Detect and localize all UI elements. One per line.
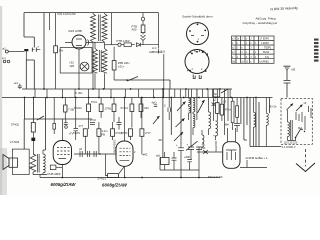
svg-text:17 E5PG: 17 E5PG bbox=[260, 38, 270, 41]
junction X1 bbox=[212, 98, 216, 122]
resistor R4 bbox=[11, 120, 35, 138]
tube V2 envelope bbox=[53, 141, 71, 165]
scan smudge bottom-left corner bbox=[0, 148, 7, 195]
svg-text:A00: A00 bbox=[132, 28, 137, 32]
resistor R17 bbox=[220, 98, 232, 122]
wire transformer top bbox=[39, 175, 41, 178]
capacitor C28 bbox=[94, 151, 96, 157]
output transformer primary L2 bbox=[43, 150, 45, 175]
resistor R3 bbox=[112, 47, 129, 80]
bus tie verticals bbox=[35, 89, 230, 98]
junction dots bus A bbox=[43, 88, 221, 90]
wire vertical x45.5 bbox=[43, 98, 46, 151]
capacitor C14 bbox=[88, 151, 90, 157]
ground symbol bbox=[284, 66, 291, 80]
wire vertical x196.9 bbox=[196, 89, 198, 120]
table cell text bbox=[232, 38, 272, 64]
tube V3 cathode lead bbox=[119, 166, 125, 177]
wire vertical x49.5 bbox=[49, 13, 51, 30]
wire vertical x250 bbox=[249, 98, 251, 147]
svg-text:a1: a1 bbox=[3, 47, 7, 51]
cathode resistor R15 bbox=[98, 154, 119, 181]
IF transformer T1 primary coil bbox=[91, 13, 96, 89]
power transformer core bbox=[291, 120, 293, 140]
resistor R8 bbox=[121, 98, 134, 128]
capacitor C23 bbox=[225, 123, 240, 133]
coil L4a bbox=[193, 98, 195, 115]
wire rail right drop bbox=[158, 13, 160, 54]
coil L4b bbox=[193, 114, 195, 135]
wire vertical x163.8 upper bbox=[163, 54, 165, 89]
svg-text:+: + bbox=[176, 143, 178, 147]
tube V2 cathode bbox=[59, 119, 67, 178]
switch S1 bbox=[114, 77, 170, 82]
svg-text:4Y7: 4Y7 bbox=[79, 124, 84, 128]
capacitor C11 block bbox=[10, 138, 35, 154]
wire horizontal y146.5 bbox=[250, 146, 281, 148]
dial lamp box bbox=[60, 48, 92, 74]
wire vertical x243.9 bbox=[244, 98, 247, 141]
svg-text:4pCt: 4pCt bbox=[152, 102, 158, 105]
dial lamp bbox=[80, 62, 89, 71]
IF transformer T1 core bbox=[99, 15, 101, 42]
svg-text:1 E5P2: 1 E5P2 bbox=[261, 42, 270, 45]
socket U2 radial ticks bbox=[187, 50, 208, 72]
svg-text:5?41: 5?41 bbox=[91, 100, 97, 104]
resistor R18 bbox=[236, 98, 239, 124]
varicap CV7 bbox=[153, 116, 160, 124]
coupling box between buses bbox=[213, 89, 220, 97]
svg-text:M#: M# bbox=[225, 123, 229, 127]
varicap CV4 bbox=[198, 100, 205, 113]
bottom rail bbox=[40, 177, 220, 179]
IF transformer T3 primary coil bbox=[93, 42, 98, 89]
svg-text:PTB A B/Z: PTB A B/Z bbox=[117, 39, 131, 43]
svg-text:F 30c: F 30c bbox=[76, 91, 84, 95]
cathode resistor R19 bbox=[50, 165, 62, 170]
resistor R6 bbox=[74, 98, 91, 130]
capacitor C16 bbox=[117, 117, 122, 130]
tube V4 envelope bbox=[223, 142, 240, 169]
svg-text:9D-2h: 9D-2h bbox=[269, 105, 277, 109]
coil L9 bbox=[202, 130, 204, 147]
IF transformer T1 secondary coil bbox=[102, 13, 107, 45]
svg-text:5%: 5% bbox=[59, 49, 64, 53]
coil L5 bbox=[209, 98, 211, 136]
capacitor C10 bbox=[284, 81, 291, 98]
svg-text:47g: 47g bbox=[265, 56, 270, 59]
svg-text:S 1.0/200 V: S 1.0/200 V bbox=[282, 145, 296, 149]
svg-text:+: + bbox=[202, 143, 204, 147]
wire y154 bbox=[74, 153, 117, 155]
power transformer primary L8 bbox=[288, 110, 290, 141]
wire vertical x171.3 bbox=[170, 98, 172, 136]
AGC diode row bbox=[105, 39, 159, 48]
wire x219 junction bbox=[197, 146, 223, 154]
wire vertical x111.6 bbox=[111, 13, 113, 45]
tube V3 anode lead bbox=[124, 98, 126, 142]
tube socket top view U1 bbox=[187, 23, 209, 45]
wire vertical x247 bbox=[246, 98, 248, 126]
wire vertical x228 bbox=[227, 89, 229, 121]
speaker frame bbox=[12, 149, 29, 174]
svg-text:UUP6B1: UUP6B1 bbox=[260, 60, 270, 63]
capacitor bus A left end bbox=[14, 82, 22, 89]
svg-text:RV12P2000: RV12P2000 bbox=[114, 139, 117, 153]
loudspeaker LS bbox=[3, 155, 18, 170]
tube V3 grid bbox=[120, 148, 131, 160]
junction dots wire y154 bbox=[99, 153, 101, 155]
svg-text:7.0B: 7.0B bbox=[68, 108, 74, 112]
lamp labels bbox=[69, 60, 75, 68]
resistor chain R2 bbox=[132, 13, 146, 45]
wire top rail bbox=[24, 12, 159, 14]
capacitor C24 bbox=[53, 98, 56, 135]
svg-text:A*C*: A*C* bbox=[145, 131, 151, 135]
svg-text:+#08: +#08 bbox=[184, 155, 190, 159]
IF transformer T3 core bbox=[100, 50, 102, 72]
wire vertical x240.9 bbox=[240, 98, 242, 125]
svg-text:Sockel-Schaltbild oben: Sockel-Schaltbild oben bbox=[182, 15, 213, 19]
svg-text:4Z3: 4Z3 bbox=[144, 106, 149, 110]
svg-text:FB: FB bbox=[102, 132, 106, 136]
svg-text:R22 A/5B: R22 A/5B bbox=[69, 29, 82, 33]
block capacitor C20 bbox=[156, 152, 169, 170]
svg-text:anz: anz bbox=[14, 82, 19, 85]
svg-text:PUB AB/Z: PUB AB/Z bbox=[48, 172, 61, 176]
svg-text:1Z#: 1Z# bbox=[69, 64, 74, 68]
svg-text:6008g/ZtAW: 6008g/ZtAW bbox=[102, 182, 128, 187]
wire vertical x170 bbox=[169, 80, 171, 89]
svg-text:57423: 57423 bbox=[74, 106, 82, 110]
resistor R12 bbox=[111, 122, 123, 140]
IF transformer T3 secondary coil bbox=[102, 45, 107, 89]
wire input step lower bbox=[26, 60, 34, 89]
svg-text:eT-5D4: eT-5D4 bbox=[10, 140, 20, 144]
plug pins bbox=[309, 106, 312, 118]
tube V3 envelope bbox=[116, 141, 133, 166]
svg-text:110 125 220: 110 125 220 bbox=[284, 141, 298, 144]
svg-text:+: + bbox=[187, 143, 189, 147]
power unit dashed box bbox=[281, 98, 312, 144]
svg-text:AdCuyg Prtwg: AdCuyg Prtwg bbox=[256, 17, 276, 21]
wire horizontal y119 bbox=[25, 118, 93, 120]
svg-text:6005g/ZtAW: 6005g/ZtAW bbox=[51, 182, 77, 187]
voltage selector S4 bbox=[295, 127, 305, 138]
trimmer cap CV5 bbox=[287, 104, 294, 111]
tube V1 plate cap bbox=[88, 40, 89, 46]
svg-text:#93: #93 bbox=[201, 146, 206, 150]
resistor R9 bbox=[139, 98, 149, 119]
choke L10 bbox=[254, 98, 256, 147]
resistor R10 bbox=[73, 129, 87, 154]
resistor R13 bbox=[121, 129, 133, 140]
wire speaker bottom bbox=[29, 167, 47, 175]
electrolytic C18 bbox=[187, 98, 195, 161]
left edge terminal bbox=[2, 57, 10, 63]
tube V2 grid bbox=[57, 148, 70, 155]
svg-text:MZ: MZ bbox=[292, 68, 296, 72]
coil L3b bbox=[189, 107, 191, 121]
svg-text:tm: tm bbox=[213, 98, 216, 102]
varicap CV2 bbox=[176, 118, 185, 127]
switch lever S5 bbox=[186, 141, 198, 150]
mains plug V symbol bbox=[296, 163, 315, 172]
resistor R6b bbox=[91, 98, 103, 119]
wire vertical x33.5 low bbox=[33, 98, 35, 121]
capacitor C27 bbox=[172, 152, 177, 170]
trimmer cap CV6 bbox=[296, 101, 307, 111]
svg-text:5?4(21: 5?4(21 bbox=[98, 177, 107, 181]
svg-text:17W1: 17W1 bbox=[105, 107, 113, 111]
capacitor C1 bbox=[23, 49, 28, 60]
wire vertical x24.5 low bbox=[23, 98, 25, 150]
wire vertical x224.6 bbox=[224, 98, 226, 136]
capacitor C25 bbox=[64, 119, 74, 136]
resistor R7 bbox=[105, 98, 116, 123]
svg-text:5?4(2): 5?4(2) bbox=[11, 123, 19, 127]
svg-text:PG12 D 60: PG12 D 60 bbox=[208, 175, 223, 179]
resistor R11 bbox=[97, 122, 108, 154]
wire vertical x256 bbox=[255, 98, 257, 147]
choke L7 bbox=[266, 98, 268, 147]
svg-text:TA2W: TA2W bbox=[263, 51, 270, 54]
tube socket side view U2 bbox=[185, 50, 209, 74]
junction dots bottom rail bbox=[62, 177, 200, 179]
electrolytic C19 bbox=[196, 143, 204, 178]
svg-text:2x4KM beiBei + 1: 2x4KM beiBei + 1 bbox=[246, 156, 268, 160]
wire y170 bottom-left of rectifier bbox=[160, 158, 199, 171]
wire rectifier output bbox=[240, 160, 267, 168]
capacitor C22 bbox=[164, 98, 170, 121]
svg-text:TE5P1: TE5P1 bbox=[264, 47, 272, 50]
coil L3a bbox=[189, 89, 191, 107]
scan smudge left edge bbox=[0, 6, 2, 195]
right edge scan marks bbox=[314, 39, 319, 62]
socket pins below bbox=[193, 75, 201, 79]
svg-text:57W1: 57W1 bbox=[73, 131, 81, 135]
capacitor C21 bbox=[184, 155, 192, 170]
field coil L1 bbox=[30, 154, 36, 175]
capacitor C2 bbox=[32, 45, 40, 52]
varicap CV1 bbox=[177, 102, 186, 112]
screen electrode bbox=[231, 98, 234, 131]
resistor R16 bbox=[213, 89, 219, 121]
wire vertical x269.5 bbox=[269, 98, 271, 114]
resistor R1 bbox=[54, 13, 64, 89]
wire left step bbox=[24, 13, 34, 48]
bus B bbox=[2, 97, 273, 99]
wire coil bottoms link bbox=[93, 41, 105, 43]
mains lead dashed bbox=[305, 149, 307, 166]
wire vertical x44 bbox=[43, 13, 45, 89]
svg-text:B11: B11 bbox=[161, 50, 166, 54]
tube table grid bbox=[232, 36, 275, 63]
output transformer core bbox=[38, 154, 40, 173]
switch S2 bbox=[221, 89, 228, 93]
svg-text:4*1: 4*1 bbox=[2, 57, 6, 61]
varicap CV3 bbox=[174, 132, 183, 141]
electrolytic C17 bbox=[176, 98, 184, 178]
svg-text:a*C6: a*C6 bbox=[90, 118, 96, 122]
wire vertical x162.9 bbox=[162, 89, 164, 158]
bus A bbox=[22, 88, 232, 90]
svg-text:RG12D60: RG12D60 bbox=[215, 140, 218, 152]
svg-text:KW FL/5 K/6Z: KW FL/5 K/6Z bbox=[58, 12, 76, 16]
tube V1 RES964 bbox=[65, 29, 93, 89]
antenna input a1 bbox=[3, 47, 24, 54]
svg-text:+Z1+: +Z1+ bbox=[118, 65, 125, 69]
wire vertical x259 bbox=[258, 102, 260, 147]
svg-text:GxtyzFay - axtwFvbEyyrw: GxtyzFay - axtwFvbEyyrw bbox=[243, 21, 279, 25]
svg-text:C: C bbox=[164, 104, 166, 108]
resistor R14 bbox=[140, 98, 151, 155]
resistor R5 bbox=[64, 98, 74, 120]
capacitor C13 bbox=[79, 147, 82, 157]
svg-text:a0±: a0± bbox=[156, 154, 161, 158]
tube V4 filament bbox=[226, 128, 237, 160]
junction dots bus B bbox=[24, 97, 257, 99]
wires in power box bbox=[288, 112, 306, 141]
capacitor C26 bbox=[152, 102, 158, 107]
coil L6 bbox=[216, 121, 218, 140]
capacitor C15 bbox=[90, 118, 96, 125]
svg-text:+#0Z: +#0Z bbox=[142, 153, 148, 157]
capacitor C12 bbox=[74, 98, 84, 141]
switch S3 bbox=[37, 116, 44, 120]
